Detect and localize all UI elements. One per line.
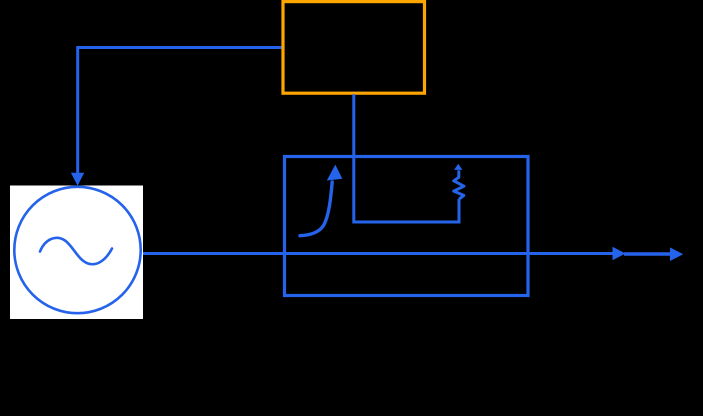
arrowhead mid (right) — [613, 247, 626, 261]
amplifier block (blue box) — [285, 157, 529, 296]
control block (orange box) — [283, 2, 425, 94]
wire: control block to variable resistor — [354, 94, 459, 222]
arrowhead into source (down) — [71, 173, 84, 186]
wire: output tail — [624, 252, 671, 255]
AC source V1 (sine generator in white panel) — [10, 186, 143, 320]
arrowhead on resistor (up) — [454, 164, 462, 170]
wire: feedback from control block to source — [78, 48, 282, 175]
wire: source output through amplifier — [143, 252, 614, 255]
arrowhead on curve (up) — [327, 165, 343, 181]
variable resistor R (squiggle) — [454, 170, 464, 199]
nonlinear transfer curve — [300, 182, 332, 236]
arrowhead output (right) — [670, 247, 683, 261]
